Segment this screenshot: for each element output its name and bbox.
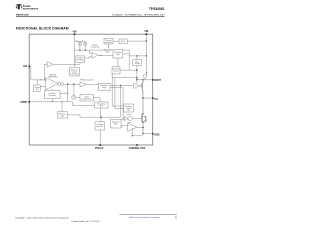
svg-text:-: -	[46, 88, 47, 90]
svg-text:Copyright © 2011–2013, Texas I: Copyright © 2011–2013, Texas Instruments…	[15, 216, 69, 219]
svg-text:Product Folder Links: TPS54061: Product Folder Links: TPS54061	[72, 220, 100, 223]
svg-text:THERMAL PAD: THERMAL PAD	[129, 147, 146, 150]
svg-text:UVLO: UVLO	[121, 41, 126, 43]
svg-text:TPS54061: TPS54061	[149, 7, 165, 11]
svg-text:Submit Documentation Feedback: Submit Documentation Feedback	[129, 216, 161, 219]
svg-text:INSTRUMENTS: INSTRUMENTS	[23, 8, 39, 10]
svg-text:EN: EN	[23, 64, 27, 68]
svg-text:+: +	[46, 81, 48, 83]
svg-text:Shift: Shift	[100, 105, 104, 108]
svg-text:AMPLIFIER: AMPLIFIER	[48, 76, 58, 79]
svg-text:Ip: Ip	[76, 40, 77, 42]
svg-text:RT/CLK: RT/CLK	[95, 148, 104, 150]
svg-text:Comparator: Comparator	[90, 46, 99, 49]
svg-text:GND: GND	[154, 134, 159, 136]
svg-text:VIN: VIN	[144, 31, 148, 33]
svg-text:with PLL: with PLL	[96, 125, 103, 128]
svg-text:Pulse Skip: Pulse Skip	[70, 73, 78, 75]
svg-text:FUNCTIONAL BLOCK DIAGRAM: FUNCTIONAL BLOCK DIAGRAM	[16, 26, 69, 30]
svg-text:PH: PH	[154, 99, 158, 101]
svg-text:COMP: COMP	[20, 102, 27, 104]
svg-text:Texas: Texas	[23, 4, 31, 8]
svg-text:Shutdown: Shutdown	[105, 41, 113, 44]
svg-text:5: 5	[175, 217, 177, 220]
svg-text:PWM Comparator: PWM Comparator	[80, 78, 94, 81]
svg-text:SLVSAU9C – NOVEMBER 2011 – REV: SLVSAU9C – NOVEMBER 2011 – REVISED APRIL…	[112, 13, 165, 16]
svg-text:BOOT: BOOT	[154, 80, 161, 82]
svg-text:Ih: Ih	[82, 40, 83, 42]
svg-text:Sense: Sense	[127, 122, 131, 124]
svg-text:Recovery: Recovery	[49, 94, 56, 97]
svg-text:Current: Current	[126, 113, 132, 116]
svg-text:Logic: Logic	[105, 51, 109, 53]
svg-text:VIN: VIN	[73, 32, 77, 34]
svg-text:www.ti.com: www.ti.com	[16, 13, 29, 16]
svg-text:Logic: Logic	[116, 54, 120, 56]
svg-text:Compensation: Compensation	[81, 97, 92, 100]
svg-text:Threshold: Threshold	[76, 59, 84, 62]
svg-text:Charge: Charge	[134, 62, 140, 65]
svg-text:Reference: Reference	[112, 122, 119, 124]
svg-text:Clamp: Clamp	[114, 71, 119, 73]
svg-text:Logic: Logic	[102, 87, 106, 89]
